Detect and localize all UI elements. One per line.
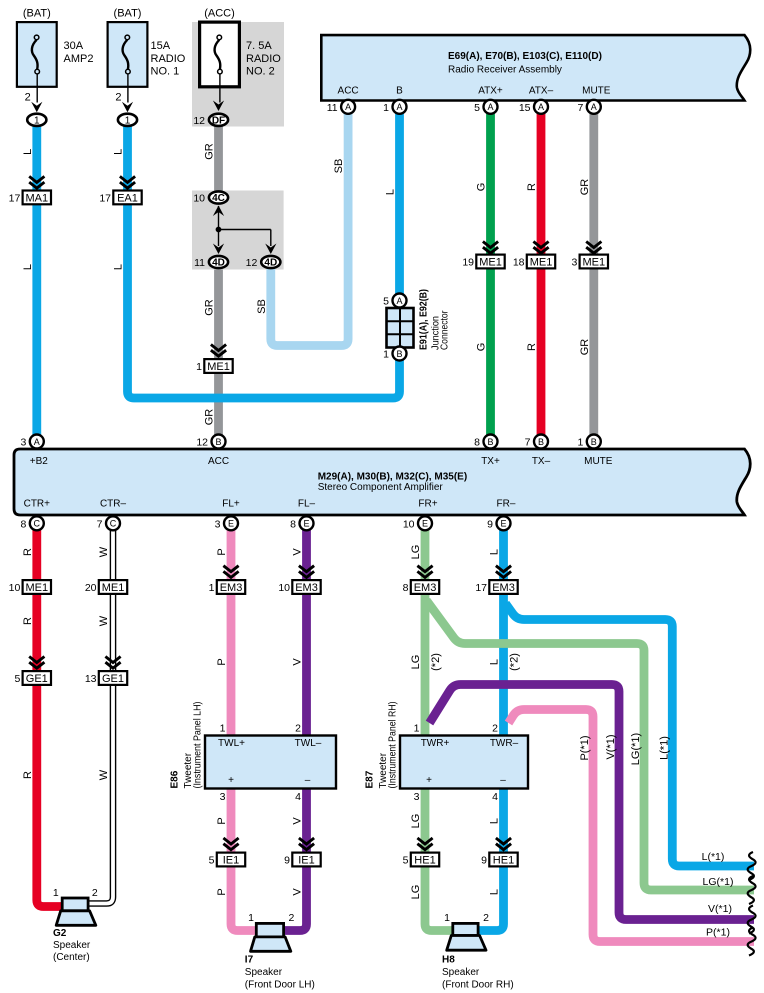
svg-text:17: 17 xyxy=(9,192,21,204)
svg-text:+B2: +B2 xyxy=(30,456,49,467)
svg-text:5: 5 xyxy=(474,102,480,114)
svg-text:TWL+: TWL+ xyxy=(218,738,245,749)
svg-text:5: 5 xyxy=(383,296,389,308)
svg-text:9: 9 xyxy=(284,855,290,867)
svg-text:A: A xyxy=(396,102,402,112)
svg-text:(ACC): (ACC) xyxy=(204,8,235,20)
junction connector E91(A),E92(B) pin 5 A xyxy=(393,294,407,308)
connector 20 ME1 xyxy=(99,580,127,594)
svg-text:TWL–: TWL– xyxy=(295,738,322,749)
svg-text:E: E xyxy=(422,519,428,529)
svg-text:ATX+: ATX+ xyxy=(478,86,503,97)
svg-text:TX–: TX– xyxy=(532,456,551,467)
svg-text:TX+: TX+ xyxy=(481,456,500,467)
svg-text:1: 1 xyxy=(248,912,254,924)
svg-text:2: 2 xyxy=(295,723,301,735)
tweeter E87 box xyxy=(400,736,528,789)
wire LG(*1) branch to off-page right xyxy=(427,601,755,891)
svg-text:ME1: ME1 xyxy=(479,256,502,268)
wire G radio ATX+ to amplifier TX+ xyxy=(486,113,495,437)
amplifier pin 12 B (ACC) xyxy=(212,435,226,449)
amplifier pin 3 A (+B2) xyxy=(30,435,44,449)
wire GR 4D to amplifier ACC xyxy=(214,270,223,437)
junction connector grid xyxy=(387,308,414,348)
svg-text:L: L xyxy=(22,149,34,155)
svg-text:W: W xyxy=(98,615,110,626)
svg-text:EM3: EM3 xyxy=(220,582,243,594)
svg-text:MUTE: MUTE xyxy=(584,456,613,467)
svg-text:2: 2 xyxy=(92,887,98,899)
svg-text:15A: 15A xyxy=(151,40,171,52)
connector 11 4D xyxy=(209,256,228,268)
svg-text:4D: 4D xyxy=(264,258,277,269)
svg-text:17: 17 xyxy=(475,582,487,594)
svg-text:2: 2 xyxy=(483,912,489,924)
radio pin 5 A (ATX+) xyxy=(484,100,498,114)
svg-text:L: L xyxy=(489,889,501,895)
svg-text:B: B xyxy=(538,437,544,447)
connector 8 EM3 xyxy=(411,580,439,594)
svg-text:1: 1 xyxy=(53,887,59,899)
svg-text:3: 3 xyxy=(215,518,221,530)
svg-text:1: 1 xyxy=(577,437,583,449)
svg-text:ATX–: ATX– xyxy=(529,86,554,97)
wire GR fuse RADIO NO.2 DF to 4C xyxy=(214,126,223,190)
chevrons into 5 GE1 xyxy=(29,657,44,663)
svg-text:–: – xyxy=(305,775,311,786)
arrow down into 11 4D xyxy=(213,244,224,255)
arrow into connector DF xyxy=(213,101,224,112)
svg-text:L: L xyxy=(385,189,397,195)
junction dot xyxy=(216,227,222,233)
amplifier pin 8 B (TX+) xyxy=(484,435,498,449)
svg-text:E86: E86 xyxy=(170,770,181,788)
svg-text:18: 18 xyxy=(513,257,525,269)
svg-text:10: 10 xyxy=(278,582,290,594)
svg-text:10: 10 xyxy=(403,518,415,530)
svg-text:+: + xyxy=(426,775,432,786)
connector 18 ME1 xyxy=(527,255,555,269)
chevrons into 3 ME1 xyxy=(586,242,601,248)
svg-text:W: W xyxy=(98,769,110,780)
svg-text:CTR–: CTR– xyxy=(100,499,127,510)
svg-text:HE1: HE1 xyxy=(493,854,514,866)
shaded harness region lower xyxy=(192,191,284,270)
svg-text:(Instrument Panel LH): (Instrument Panel LH) xyxy=(193,702,204,789)
speaker G2 xyxy=(62,898,88,911)
svg-text:LG: LG xyxy=(410,545,422,560)
svg-text:9: 9 xyxy=(481,855,487,867)
svg-text:19: 19 xyxy=(462,257,474,269)
svg-text:A: A xyxy=(396,296,402,306)
connector 9 HE1 xyxy=(489,853,517,867)
svg-text:HE1: HE1 xyxy=(414,854,435,866)
chevrons into 1 EM3 xyxy=(223,566,238,572)
svg-text:1: 1 xyxy=(125,116,131,127)
svg-text:(*2): (*2) xyxy=(509,653,521,671)
svg-text:7: 7 xyxy=(525,437,531,449)
svg-text:(Center): (Center) xyxy=(53,952,90,963)
svg-text:L(*1): L(*1) xyxy=(702,851,725,863)
amplifier pin 3 E (FL+) xyxy=(224,516,238,530)
chevrons into 13 GE1 xyxy=(105,657,120,663)
svg-text:NO. 2: NO. 2 xyxy=(246,66,275,78)
svg-text:GR: GR xyxy=(579,339,591,356)
fuse 15A RADIO NO.1 (BAT) xyxy=(108,22,148,87)
tweeter E86 box xyxy=(205,736,336,789)
svg-text:5: 5 xyxy=(403,855,409,867)
svg-text:L(*1): L(*1) xyxy=(658,736,670,760)
svg-text:2: 2 xyxy=(25,92,31,104)
radio pin 15 A (ATX-) xyxy=(534,100,548,114)
svg-text:7. 5A: 7. 5A xyxy=(246,40,272,52)
svg-text:(BAT): (BAT) xyxy=(114,8,142,20)
connector 13 GE1 xyxy=(99,671,127,685)
svg-text:11: 11 xyxy=(194,257,205,269)
svg-text:5: 5 xyxy=(14,673,20,685)
wire GR radio MUTE to amplifier MUTE xyxy=(589,113,598,437)
svg-text:L: L xyxy=(22,264,34,270)
chevrons into EA1 xyxy=(120,176,135,182)
svg-text:IE1: IE1 xyxy=(223,854,240,866)
svg-text:G2: G2 xyxy=(53,928,67,939)
svg-text:9: 9 xyxy=(487,518,493,530)
svg-text:EM3: EM3 xyxy=(414,582,437,594)
svg-text:ME1: ME1 xyxy=(207,361,230,373)
svg-text:1: 1 xyxy=(383,349,389,361)
svg-text:Connector: Connector xyxy=(440,310,451,350)
svg-text:R: R xyxy=(22,771,34,779)
connector 10 ME1 xyxy=(23,580,51,594)
svg-text:5: 5 xyxy=(209,855,215,867)
svg-text:V: V xyxy=(292,548,304,556)
svg-text:L: L xyxy=(489,549,501,555)
svg-text:4: 4 xyxy=(492,791,498,803)
svg-text:15: 15 xyxy=(519,102,531,114)
radio pin 11 A (ACC) xyxy=(341,100,355,114)
svg-text:4: 4 xyxy=(295,791,301,803)
wire L(*1) branch to off-page right xyxy=(506,604,755,867)
wire P amplifier FL+ via tweeter E86 to speaker I7 pin 1 xyxy=(231,530,256,931)
svg-text:3: 3 xyxy=(414,791,420,803)
svg-text:M29(A), M30(B), M32(C), M35(E): M29(A), M30(B), M32(C), M35(E) xyxy=(318,472,467,483)
svg-text:B: B xyxy=(215,437,221,447)
svg-text:IE1: IE1 xyxy=(298,854,315,866)
svg-text:P(*1): P(*1) xyxy=(579,735,591,760)
svg-text:1: 1 xyxy=(414,723,420,735)
svg-text:1: 1 xyxy=(196,361,202,373)
svg-text:LG: LG xyxy=(410,655,422,670)
svg-text:RADIO: RADIO xyxy=(151,53,186,65)
svg-text:E91(A), E92(B): E91(A), E92(B) xyxy=(419,289,430,350)
svg-text:GR: GR xyxy=(204,299,216,316)
connector 1 below fuse AMP2 xyxy=(27,114,46,126)
arrow up into 4C xyxy=(213,206,224,217)
svg-text:(Front Door LH): (Front Door LH) xyxy=(245,980,315,991)
svg-text:1: 1 xyxy=(444,912,450,924)
wire L amplifier FR- via tweeter E87 to speaker H8 pin 2 xyxy=(478,530,503,931)
wire R amplifier CTR+ to speaker G2 pin 1 xyxy=(37,530,62,907)
svg-text:LG(*1): LG(*1) xyxy=(703,876,734,888)
svg-text:Radio Receiver Assembly: Radio Receiver Assembly xyxy=(448,65,562,76)
connector 10 EM3 xyxy=(292,580,320,594)
svg-text:8: 8 xyxy=(474,437,480,449)
connector 1 ME1 xyxy=(204,359,232,373)
svg-text:L: L xyxy=(489,659,501,665)
amplifier pin 7 C (CTR-) xyxy=(106,516,120,530)
svg-text:FR–: FR– xyxy=(497,499,516,510)
svg-text:ACC: ACC xyxy=(338,86,359,97)
svg-text:1: 1 xyxy=(383,102,389,114)
svg-text:FL+: FL+ xyxy=(222,499,240,510)
speaker H8 xyxy=(453,923,478,935)
svg-text:V(*1): V(*1) xyxy=(605,734,617,759)
svg-text:E: E xyxy=(500,519,506,529)
connector 5 IE1 xyxy=(217,853,245,867)
amplifier pin 9 E (FR-) xyxy=(497,516,511,530)
svg-text:8: 8 xyxy=(403,582,409,594)
svg-text:Speaker: Speaker xyxy=(442,967,480,978)
svg-text:W: W xyxy=(98,546,110,557)
svg-text:TWR–: TWR– xyxy=(490,738,519,749)
svg-text:ME1: ME1 xyxy=(582,256,605,268)
chevrons into 1 ME1 xyxy=(211,345,226,351)
chevrons into 5 IE1 xyxy=(223,838,238,844)
svg-text:3: 3 xyxy=(20,437,26,449)
svg-text:Stereo Component Amplifier: Stereo Component Amplifier xyxy=(318,482,444,493)
svg-text:B: B xyxy=(396,86,403,97)
svg-text:2: 2 xyxy=(115,92,121,104)
svg-text:GR: GR xyxy=(579,179,591,196)
svg-text:B: B xyxy=(487,437,493,447)
connector 3 ME1 xyxy=(580,255,608,269)
svg-text:SB: SB xyxy=(333,159,345,174)
svg-text:V: V xyxy=(292,658,304,666)
wire W amplifier CTR- to speaker G2 pin 2 xyxy=(88,530,113,904)
chevrons into 17 EM3 xyxy=(496,566,511,572)
svg-text:FL–: FL– xyxy=(298,499,316,510)
radio pin 7 A (MUTE) xyxy=(587,100,601,114)
fuse 7.5A RADIO NO.2 (ACC) xyxy=(200,22,240,87)
svg-text:R: R xyxy=(22,548,34,556)
connector 1 EM3 xyxy=(217,580,245,594)
svg-text:SB: SB xyxy=(256,299,268,314)
wire SB 4D to radio ACC xyxy=(271,113,348,346)
chevrons into 19 ME1 xyxy=(483,242,498,248)
svg-text:A: A xyxy=(591,102,597,112)
wire R radio ATX- to amplifier TX- xyxy=(537,113,546,437)
svg-text:MUTE: MUTE xyxy=(582,86,611,97)
connector 1 below fuse RADIO NO.1 xyxy=(118,114,137,126)
connector 17 EM3 xyxy=(489,580,517,594)
svg-text:20: 20 xyxy=(85,582,97,594)
svg-text:(Front Door RH): (Front Door RH) xyxy=(442,980,514,991)
svg-text:12: 12 xyxy=(196,437,208,449)
svg-text:E: E xyxy=(228,519,234,529)
fuse 30A AMP2 (BAT) xyxy=(17,22,57,87)
svg-text:12: 12 xyxy=(246,257,258,269)
svg-text:B: B xyxy=(396,349,402,359)
svg-text:ME1: ME1 xyxy=(25,582,48,594)
svg-text:ME1: ME1 xyxy=(102,582,125,594)
svg-text:LG: LG xyxy=(410,885,422,900)
svg-text:EM3: EM3 xyxy=(492,582,515,594)
svg-text:P(*1): P(*1) xyxy=(706,927,730,939)
svg-text:LG(*1): LG(*1) xyxy=(630,733,642,765)
svg-text:V(*1): V(*1) xyxy=(708,903,732,915)
wire thin 4C to 4D junction xyxy=(218,206,220,230)
connector 17 MA1 xyxy=(23,191,51,205)
svg-text:(Instrument Panel RH): (Instrument Panel RH) xyxy=(388,702,399,789)
svg-text:C: C xyxy=(34,519,41,529)
arrow down into 12 4D xyxy=(265,244,276,255)
connector 10 4C xyxy=(209,191,228,203)
chevrons into 9 HE1 xyxy=(496,838,511,844)
svg-text:17: 17 xyxy=(99,192,111,204)
svg-text:L: L xyxy=(113,149,125,155)
svg-text:(*2): (*2) xyxy=(430,653,442,671)
svg-text:7: 7 xyxy=(97,518,103,530)
wire L fuse RADIO NO.1 to radio B xyxy=(128,113,400,399)
svg-text:1: 1 xyxy=(34,116,40,127)
svg-text:H8: H8 xyxy=(442,955,455,966)
wire LG amplifier FR+ via tweeter E87 to speaker H8 pin 1 xyxy=(425,530,453,931)
svg-text:13: 13 xyxy=(85,673,97,685)
svg-text:12: 12 xyxy=(193,115,205,127)
connector 12 4D xyxy=(261,256,280,268)
connector 9 IE1 xyxy=(292,853,320,867)
amplifier pin 7 B (TX-) xyxy=(534,435,548,449)
svg-text:AMP2: AMP2 xyxy=(64,53,94,65)
svg-text:E: E xyxy=(303,519,309,529)
connector 19 ME1 xyxy=(476,255,504,269)
svg-text:RADIO: RADIO xyxy=(246,53,281,65)
svg-text:GR: GR xyxy=(204,409,216,426)
svg-text:1: 1 xyxy=(220,723,226,735)
wire P(*1) tweeter E87 TWR- to off-page right xyxy=(509,710,755,942)
speaker I7 xyxy=(256,923,283,937)
svg-text:A: A xyxy=(538,102,544,112)
svg-text:3: 3 xyxy=(220,791,226,803)
svg-text:B: B xyxy=(591,437,597,447)
svg-text:1: 1 xyxy=(209,582,215,594)
svg-text:I7: I7 xyxy=(245,955,254,966)
svg-text:3: 3 xyxy=(571,257,577,269)
svg-text:V: V xyxy=(292,817,304,825)
shaded harness region upper xyxy=(192,22,284,127)
connector 5 HE1 xyxy=(411,853,439,867)
svg-text:8: 8 xyxy=(20,518,26,530)
wire V amplifier FL- via tweeter E86 to speaker I7 pin 2 xyxy=(284,530,307,931)
svg-text:11: 11 xyxy=(327,102,338,114)
svg-text:P: P xyxy=(216,817,228,824)
stereo component amplifier box xyxy=(14,449,750,515)
svg-text:Speaker: Speaker xyxy=(245,967,283,978)
svg-text:P: P xyxy=(216,548,228,555)
amplifier pin 10 E (FR+) xyxy=(418,516,432,530)
svg-text:NO. 1: NO. 1 xyxy=(151,66,180,78)
svg-text:10: 10 xyxy=(193,193,205,205)
radio pin 1 A (B) xyxy=(393,100,407,114)
svg-text:G: G xyxy=(476,343,488,352)
chevrons into 5 HE1 xyxy=(417,838,432,844)
svg-text:2: 2 xyxy=(492,723,498,735)
svg-text:C: C xyxy=(110,519,117,529)
svg-text:A: A xyxy=(34,437,40,447)
svg-text:10: 10 xyxy=(9,582,21,594)
amplifier pin 8 C (CTR+) xyxy=(30,516,44,530)
svg-text:30A: 30A xyxy=(64,40,84,52)
svg-text:L: L xyxy=(113,264,125,270)
wire L fuse AMP2 to amplifier +B2 xyxy=(32,126,41,436)
svg-text:DF: DF xyxy=(212,115,225,126)
svg-text:4D: 4D xyxy=(212,258,225,269)
svg-text:(BAT): (BAT) xyxy=(23,8,51,20)
chevrons into 9 IE1 xyxy=(299,838,314,844)
svg-text:EA1: EA1 xyxy=(117,192,138,204)
svg-text:LG: LG xyxy=(410,814,422,829)
svg-text:MA1: MA1 xyxy=(25,192,48,204)
svg-text:ME1: ME1 xyxy=(530,256,553,268)
svg-text:P: P xyxy=(216,658,228,665)
svg-text:A: A xyxy=(345,102,351,112)
chevrons into MA1 xyxy=(29,176,44,182)
connector 17 EA1 xyxy=(113,191,141,205)
svg-text:8: 8 xyxy=(290,518,296,530)
connector 12 DF xyxy=(209,114,228,126)
svg-text:R: R xyxy=(526,343,538,351)
wire V(*1) tweeter E87 TWR+ to off-page right xyxy=(430,685,755,920)
svg-text:EM3: EM3 xyxy=(295,582,318,594)
connector 5 GE1 xyxy=(23,671,51,685)
svg-text:GR: GR xyxy=(204,143,216,160)
chevrons into 8 EM3 xyxy=(417,566,432,572)
junction connector pin 1 B xyxy=(393,347,407,361)
amplifier pin 1 B (MUTE) xyxy=(587,435,601,449)
svg-text:A: A xyxy=(487,102,493,112)
chevrons into 10 EM3 xyxy=(299,566,314,572)
amplifier pin 8 E (FL-) xyxy=(300,516,314,530)
svg-text:V: V xyxy=(292,888,304,896)
svg-text:2: 2 xyxy=(288,912,294,924)
svg-text:–: – xyxy=(500,775,506,786)
svg-text:E87: E87 xyxy=(365,770,376,788)
svg-text:L: L xyxy=(489,818,501,824)
svg-text:FR+: FR+ xyxy=(418,499,437,510)
svg-text:G: G xyxy=(476,183,488,192)
svg-text:7: 7 xyxy=(577,102,583,114)
svg-text:GE1: GE1 xyxy=(26,673,48,685)
svg-text:4C: 4C xyxy=(212,193,225,204)
svg-text:E69(A), E70(B), E103(C), E110(: E69(A), E70(B), E103(C), E110(D) xyxy=(448,51,602,62)
svg-text:GE1: GE1 xyxy=(102,673,124,685)
svg-text:P: P xyxy=(216,888,228,895)
chevrons into 18 ME1 xyxy=(533,242,548,248)
svg-text:R: R xyxy=(526,183,538,191)
radio receiver assembly box xyxy=(321,35,750,100)
off-page torn marks xyxy=(748,852,756,880)
svg-text:R: R xyxy=(22,617,34,625)
svg-text:+: + xyxy=(228,775,234,786)
svg-text:TWR+: TWR+ xyxy=(421,738,450,749)
svg-text:CTR+: CTR+ xyxy=(24,499,51,510)
svg-text:ACC: ACC xyxy=(208,456,229,467)
svg-text:Speaker: Speaker xyxy=(53,940,91,951)
